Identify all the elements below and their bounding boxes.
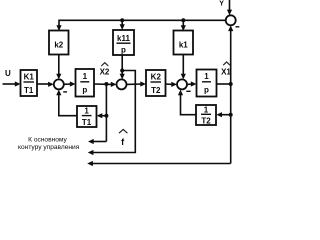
hat over f: [119, 129, 127, 133]
arrowhead into 1/p: [70, 81, 76, 86]
svg-text:1: 1: [84, 107, 89, 116]
svg-text:контуру управления: контуру управления: [18, 144, 80, 151]
fraction bar 1/T2: [201, 113, 211, 115]
wire 1/T2 to S3 feedback: [181, 94, 197, 115]
wire S1 to 1/p: [64, 83, 72, 85]
fraction bar k11/p: [117, 42, 131, 44]
wire 1/p to S2: [94, 83, 113, 85]
wire S2 to K2/T2: [127, 83, 143, 85]
fraction bar K2/T2: [151, 81, 162, 83]
arrowhead X1 into S4 bottom: [228, 25, 233, 31]
arrowhead into S2 left: [111, 82, 117, 87]
svg-text:T1: T1: [24, 86, 34, 95]
node X1 dot: [229, 82, 233, 86]
wire k11/p to S2: [121, 55, 123, 76]
minus sign at S3: [186, 90, 190, 92]
wire X1 feedback vertical right: [230, 31, 232, 164]
wire f branch: [92, 71, 135, 153]
svg-text:1: 1: [83, 72, 88, 81]
block K1/T1: [21, 70, 38, 96]
summing junction S2: [117, 79, 127, 89]
block k11/p: [113, 30, 134, 55]
summing junction S4: [226, 15, 236, 25]
junction dot k11 feed: [120, 18, 124, 22]
wire S4 output along top to k2: [59, 20, 226, 27]
summing junction S1: [54, 79, 64, 89]
node X2 dot: [104, 82, 108, 86]
junction dot k1 feed: [181, 18, 185, 22]
block K2/T2: [146, 70, 166, 96]
wire K2/T2 to S3: [166, 83, 174, 85]
junction dot 1/T2 feed: [229, 113, 233, 117]
arrowhead into k11/p top: [120, 24, 125, 30]
svg-text:U: U: [5, 69, 11, 78]
svg-text:T2: T2: [201, 117, 211, 126]
fraction bar 1/p: [80, 81, 89, 83]
svg-text:p: p: [82, 86, 87, 95]
fraction bar K1/T1: [24, 81, 35, 83]
arrowhead into 1/p2: [191, 81, 197, 86]
block 1/T2: [196, 105, 216, 125]
svg-text:K1: K1: [24, 73, 35, 82]
svg-text:f: f: [121, 137, 125, 147]
summing junction S3: [177, 79, 187, 89]
svg-text:K2: K2: [151, 73, 162, 82]
block 1/p integrator X1: [197, 70, 217, 97]
arrowhead main loop 2: [88, 150, 94, 155]
hat over X1: [223, 62, 230, 65]
wire S3 to 1/p2: [187, 83, 193, 85]
svg-text:1: 1: [204, 106, 209, 115]
wire top line to k1: [182, 20, 184, 27]
wire node X2 down: [105, 84, 107, 142]
wire to 1/T1 input: [101, 115, 106, 117]
wire 1/p2 to node X1: [217, 83, 231, 85]
block 1/T1: [77, 106, 97, 127]
svg-text:1: 1: [204, 72, 209, 81]
svg-text:Y: Y: [219, 0, 224, 7]
block k2: [49, 31, 69, 55]
arrowhead into k2 top: [56, 25, 61, 31]
arrowhead 1/T2 into S3 bottom: [178, 90, 183, 96]
arrowhead k2 into S1 top: [56, 74, 61, 80]
fraction bar 1/p2: [202, 81, 211, 83]
wire top line to k11/p: [121, 20, 123, 26]
svg-text:k1: k1: [179, 41, 188, 50]
block 1/p integrator X2: [76, 69, 95, 97]
svg-text:X1: X1: [221, 67, 231, 76]
junction dot f branch: [120, 69, 124, 73]
wire X1 to main loop arrow3: [92, 163, 231, 165]
arrowhead into k1 top: [181, 25, 186, 31]
junction dot 1/T1 branch: [104, 114, 108, 118]
svg-text:T1: T1: [82, 118, 92, 127]
wire K1/T1 to S1: [37, 83, 50, 85]
arrowhead k1 into S3 top: [181, 74, 186, 80]
arrowhead main loop 1: [88, 139, 94, 144]
svg-text:k11: k11: [117, 34, 130, 43]
svg-text:X2: X2: [100, 67, 110, 76]
arrowhead into S3 left: [171, 82, 177, 87]
arrowhead into 1/T2 right: [216, 112, 222, 117]
svg-text:T2: T2: [151, 86, 161, 95]
minus sign at S1: [63, 91, 67, 93]
fraction bar 1/T1: [82, 115, 92, 117]
arrowhead main loop 3: [87, 161, 93, 166]
wire k2 to S1: [58, 55, 60, 76]
arrowhead into K2/T2: [140, 81, 146, 86]
minus sign at S4: [236, 26, 240, 28]
svg-text:К основному: К основному: [28, 137, 67, 144]
wire X1 to 1/T2 input: [221, 114, 231, 116]
wire U input: [3, 83, 17, 85]
arrowhead Y into S4 top: [227, 10, 232, 16]
wire Y input: [229, 0, 231, 12]
svg-text:k2: k2: [54, 41, 63, 50]
wire k1 to S3: [182, 55, 184, 76]
arrowhead into K1/T1: [15, 81, 21, 86]
svg-text:p: p: [121, 46, 126, 55]
svg-text:p: p: [204, 86, 209, 95]
arrowhead into S1 left: [48, 82, 54, 87]
arrowhead into 1/T1 right: [97, 113, 103, 118]
hat over X2: [101, 63, 108, 66]
arrowhead 1/T1 into S1 bottom: [56, 90, 61, 96]
arrowhead k11/p into S2 top: [120, 74, 125, 80]
wire 1/T1 to S1 feedback: [59, 94, 77, 116]
block k1: [174, 31, 194, 55]
wire X2 to main loop arrow1: [92, 141, 106, 143]
